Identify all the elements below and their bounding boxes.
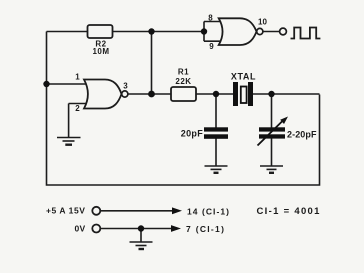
svg-text:XTAL: XTAL	[231, 72, 256, 82]
svg-text:22K: 22K	[175, 77, 191, 86]
svg-text:20pF: 20pF	[181, 128, 203, 138]
svg-text:8: 8	[208, 13, 213, 22]
svg-text:10: 10	[258, 17, 267, 26]
svg-text:2-20pF: 2-20pF	[287, 129, 317, 139]
svg-text:R1: R1	[178, 68, 189, 77]
svg-text:7 (CI-1): 7 (CI-1)	[186, 224, 225, 234]
svg-text:2: 2	[75, 104, 80, 113]
svg-text:10M: 10M	[92, 47, 109, 56]
svg-text:1: 1	[75, 72, 80, 81]
svg-text:0V: 0V	[75, 223, 86, 233]
svg-text:3: 3	[123, 82, 128, 91]
svg-text:CI-1 = 4001: CI-1 = 4001	[257, 206, 321, 217]
svg-text:+5 A 15V: +5 A 15V	[46, 205, 85, 215]
svg-text:9: 9	[209, 42, 214, 51]
svg-text:14 (CI-1): 14 (CI-1)	[187, 206, 230, 216]
